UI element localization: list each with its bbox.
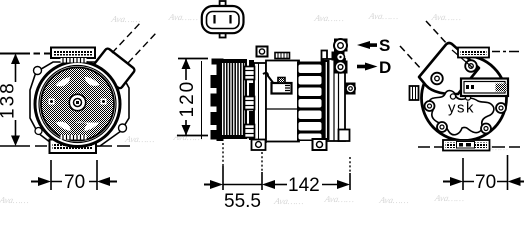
dim 120: [177, 59, 208, 136]
142 left arrow: [262, 180, 275, 189]
slot SE: [75, 122, 99, 131]
slot SW: [56, 122, 71, 131]
dim 138 bottom arrowhead: [11, 136, 20, 147]
bottom dims 55.5 and 142: [204, 143, 350, 212]
pulley outer circle: [35, 62, 120, 147]
D arrow: [357, 65, 368, 69]
svg-text:Ava……: Ava……: [433, 193, 465, 203]
ext line 2: [261, 152, 263, 172]
pulley inner ring: [39, 66, 116, 143]
left hatch tab: [410, 86, 419, 100]
svg-text:Ava……: Ava……: [172, 132, 204, 142]
top lug of pulley: [51, 48, 95, 59]
top hatched bracket: [458, 48, 489, 58]
svg-text:70: 70: [64, 172, 85, 193]
lug lower: [245, 125, 255, 138]
tilted bracket: [419, 43, 479, 94]
142 right arrow: [337, 180, 350, 189]
svg-text:Ava……: Ava……: [124, 134, 156, 144]
cloud bump circle 2: [465, 95, 470, 100]
rear section: [323, 59, 345, 141]
bolt ring bottom-right: [481, 124, 491, 134]
svg-text:Ava……: Ava……: [167, 12, 199, 22]
svg-text:70: 70: [475, 172, 496, 193]
svg-text:Ava……: Ava……: [323, 194, 355, 204]
belt groove marks top: [61, 58, 87, 63]
bolt ring left: [425, 101, 435, 111]
pin 1: [213, 15, 215, 24]
svg-text:142: 142: [288, 175, 320, 196]
dashed leaders top-left: [400, 46, 422, 70]
pin 2: [229, 15, 231, 24]
bottom mount: [443, 140, 490, 151]
55.5 left outside arrow: [204, 184, 211, 186]
hub strip blocks: [249, 60, 254, 140]
centerline right of bottom lug: [97, 145, 130, 147]
bottom lug of pulley: [50, 140, 97, 154]
bottom foot with hole: [252, 140, 266, 151]
vertical tab on top of rear: [322, 51, 328, 62]
svg-text:Ava……: Ava……: [0, 195, 30, 205]
dashed leader lines to upper right: [112, 21, 142, 53]
lug middle: [245, 97, 255, 110]
ribbed cap on top: [275, 53, 290, 59]
ext line 1: [222, 143, 224, 166]
svg-text:120: 120: [177, 80, 198, 118]
wavy cloud: [429, 91, 494, 135]
svg-text:ysk: ysk: [448, 100, 475, 117]
svg-text:Ava……: Ava……: [430, 12, 462, 22]
bottom-right lug with hole: [313, 139, 327, 150]
plate ear circle top-left: [34, 67, 42, 75]
ribs section (stacked slabs): [297, 62, 323, 142]
dim 70 left: extension lines: [50, 160, 52, 190]
connector top: [202, 1, 244, 38]
dim 138 top tick line: [0, 53, 50, 55]
dim 138 bottom tick line: [0, 145, 47, 147]
middle collar: [337, 53, 345, 61]
svg-text:S: S: [379, 36, 390, 55]
plate ear circle bottom-left: [35, 128, 42, 135]
label plate: [461, 79, 508, 97]
svg-text:Ava……: Ava……: [110, 14, 142, 24]
svg-text:Ava……: Ava……: [367, 11, 399, 21]
slot NW: [56, 77, 71, 86]
dim 70 left: line bits: [51, 181, 97, 183]
lower boss: [345, 83, 356, 95]
pulley side: black silhouette with teeth: [211, 59, 224, 142]
rear bottom-right foot: [339, 130, 350, 142]
diagonal bracket top-right of pulley: [92, 21, 157, 89]
142 line right part: [322, 184, 341, 186]
pulley side: thin face line: [201, 61, 203, 139]
dash-dot right of top bracket: [492, 51, 519, 53]
ports block silhouette: [332, 39, 348, 74]
svg-text:D: D: [379, 58, 391, 77]
lug upper: [245, 67, 255, 80]
S arrow: [357, 41, 370, 49]
svg-text:138: 138: [0, 81, 19, 119]
svg-text:Ava……: Ava……: [313, 13, 345, 23]
S port: [334, 39, 347, 52]
142 line left part: [272, 184, 287, 186]
pulley side: grooved rect: [221, 60, 246, 138]
D port: [335, 61, 346, 72]
inner line of bracket arm: [452, 50, 473, 68]
dim 138 top arrowhead: [11, 54, 20, 65]
plate ear circle bottom-right: [119, 124, 127, 132]
dim 138 vertical line: [15, 55, 17, 82]
pulley dotted disc: [41, 68, 114, 141]
slot NE: [85, 77, 100, 86]
bolt ring right: [496, 103, 506, 113]
dash-dot through mount: [418, 146, 520, 148]
dim 70 right: [443, 155, 524, 193]
top lug with hole: [257, 47, 268, 57]
bolt ring bottom-left: [437, 122, 447, 132]
ext line 3: [349, 157, 351, 173]
big circle: [422, 56, 507, 141]
line between 1 and 2: [223, 184, 262, 186]
wire and plug: [263, 73, 292, 94]
rivet east: [101, 99, 107, 105]
svg-text:Ava……: Ava……: [273, 196, 305, 206]
hub: [69, 94, 85, 110]
mounting plate octagon behind pulley: [30, 62, 129, 146]
cloud bump circle 1: [450, 94, 455, 99]
front housing: [245, 47, 268, 151]
svg-text:55.5: 55.5: [224, 191, 261, 210]
main body: [266, 53, 299, 142]
belt groove marks bottom: [61, 135, 87, 140]
rivet west: [49, 99, 55, 105]
svg-text:Ava……: Ava……: [378, 195, 410, 205]
dim 70 left: arrows: [31, 181, 38, 183]
